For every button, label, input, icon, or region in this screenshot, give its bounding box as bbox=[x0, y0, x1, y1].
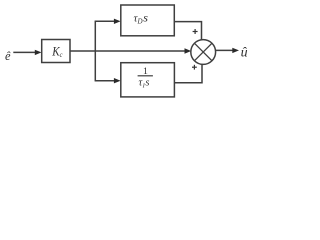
arrowhead into derivative block bbox=[114, 19, 121, 24]
block 1/tauIs fraction bar bbox=[138, 75, 153, 77]
block Kc box bbox=[42, 40, 70, 63]
summer circle bbox=[191, 40, 216, 65]
wire top rail to derivative block bbox=[95, 20, 116, 22]
svg-text:ê: ê bbox=[5, 49, 11, 63]
arrowhead into Kc bbox=[35, 50, 42, 55]
block 1/tauIs box bbox=[121, 63, 175, 97]
arrowhead output bbox=[232, 48, 239, 53]
arrowhead into summer bbox=[185, 48, 192, 53]
plus sign top bbox=[193, 29, 198, 34]
wire bottom rail to integral block bbox=[95, 80, 116, 82]
wire branch vertical bbox=[94, 21, 96, 80]
wire derivative block to summer top bbox=[174, 22, 201, 40]
wire input to Kc bbox=[13, 51, 36, 53]
svg-text:τIs: τIs bbox=[139, 78, 150, 90]
wire summer to output bbox=[216, 49, 235, 51]
block tauD box bbox=[121, 5, 175, 36]
wire Kc to summer (middle rail) bbox=[70, 50, 187, 52]
svg-text:Kc: Kc bbox=[51, 44, 63, 60]
plus sign bottom bbox=[192, 65, 197, 70]
summer X diagonal 2 bbox=[194, 43, 212, 61]
summer X diagonal 1 bbox=[194, 43, 212, 61]
svg-text:û: û bbox=[241, 45, 248, 60]
wire integral block to summer bottom bbox=[174, 64, 202, 82]
svg-text:τDs: τDs bbox=[134, 10, 149, 25]
arrowhead into integral block bbox=[114, 78, 121, 83]
